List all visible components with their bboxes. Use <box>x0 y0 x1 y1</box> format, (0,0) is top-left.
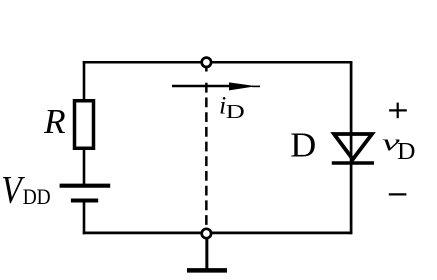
ground stem <box>205 239 208 271</box>
svg-text:D: D <box>397 139 415 165</box>
node top junction <box>202 58 211 67</box>
wire resistor to battery <box>83 148 86 185</box>
node bottom junction <box>202 229 211 238</box>
svg-text:D: D <box>290 126 316 164</box>
svg-text:DD: DD <box>23 184 51 209</box>
plus sign vertical <box>397 103 399 119</box>
svg-text:D: D <box>226 101 245 123</box>
wire left upper <box>83 61 86 101</box>
battery V1 negative plate <box>71 199 98 203</box>
wire right <box>350 61 353 234</box>
diode D1 cathode bar <box>332 161 374 165</box>
diode D1 triangle <box>334 134 372 159</box>
wire top <box>83 61 352 64</box>
battery V1 positive plate <box>60 184 111 188</box>
resistor R1 body <box>75 101 94 149</box>
wire bottom <box>83 232 352 235</box>
wire battery to bottom <box>83 201 86 235</box>
dashed load line body <box>205 83 208 229</box>
current arrow head <box>229 82 256 90</box>
minus sign <box>389 193 407 195</box>
svg-text:R: R <box>43 102 66 141</box>
plus sign <box>389 109 407 111</box>
current arrow shaft <box>172 85 240 87</box>
dashed load line <box>205 67 208 72</box>
ground bar <box>187 268 227 273</box>
current arrow tip tail <box>252 85 260 87</box>
